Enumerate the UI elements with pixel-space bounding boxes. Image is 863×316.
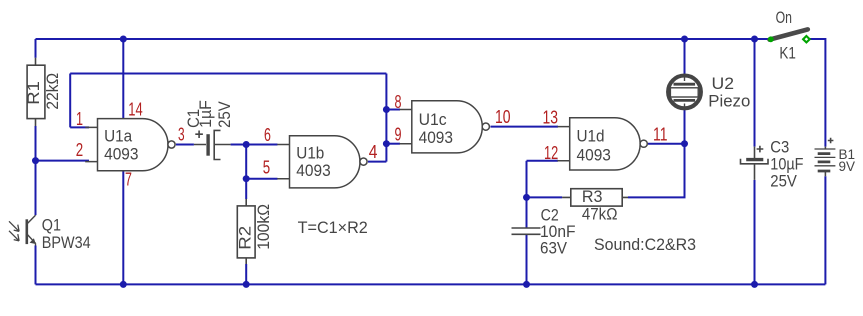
- wire pin7: [122, 171, 124, 285]
- svg-text:10: 10: [495, 106, 511, 127]
- svg-text:6: 6: [264, 124, 271, 145]
- resistor R3: [562, 189, 628, 206]
- piezo U2: [668, 75, 701, 108]
- op-amp U1d nand gate: [557, 118, 647, 170]
- svg-text:22kΩ: 22kΩ: [43, 73, 62, 110]
- svg-text:T=C1×R2: T=C1×R2: [298, 218, 368, 237]
- wire C2 to bottom rail: [526, 235, 528, 285]
- wire pin10 to pin13: [491, 126, 559, 128]
- wire pin1: [70, 74, 89, 128]
- resistor R2: [237, 199, 255, 264]
- wire pin6: [246, 144, 277, 146]
- wire C3 bottom: [754, 180, 756, 285]
- junction C3 top rail: [751, 36, 758, 43]
- svg-text:Q1: Q1: [42, 216, 61, 235]
- junction R2 bottom rail: [243, 281, 250, 288]
- svg-text:R2: R2: [236, 226, 255, 250]
- wire R1 top: [35, 39, 37, 58]
- svg-text:Piezo: Piezo: [708, 91, 750, 110]
- svg-text:9: 9: [395, 124, 402, 145]
- svg-text:11: 11: [653, 124, 668, 145]
- wire pin5: [246, 178, 277, 180]
- junction pin8 node: [383, 106, 390, 113]
- svg-text:1µF: 1µF: [196, 100, 215, 128]
- wire node down to R2: [245, 145, 247, 200]
- svg-text:12: 12: [544, 142, 558, 163]
- svg-text:U1b: U1b: [296, 144, 324, 163]
- svg-text:4093: 4093: [577, 146, 611, 165]
- svg-text:7: 7: [125, 169, 132, 190]
- junction C2 bottom rail: [523, 281, 530, 288]
- svg-text:100kΩ: 100kΩ: [254, 204, 273, 250]
- svg-text:9V: 9V: [839, 159, 856, 174]
- svg-text:R1: R1: [24, 81, 43, 105]
- junction pin9 node: [383, 140, 390, 147]
- wire pin3 U1a output to C1: [176, 144, 194, 146]
- svg-text:4: 4: [369, 141, 378, 162]
- svg-text:13: 13: [543, 106, 559, 127]
- svg-text:63V: 63V: [540, 239, 568, 258]
- wire bottom rail: [36, 283, 826, 285]
- svg-text:U1a: U1a: [104, 127, 132, 146]
- junction C2 R3 node: [523, 194, 530, 201]
- junction pin5 node: [243, 175, 250, 182]
- svg-text:U2: U2: [712, 74, 735, 93]
- wire pin4 U1b output: [368, 161, 386, 163]
- op-amp U1c nand gate: [400, 101, 490, 153]
- junction C3 bottom rail: [751, 281, 758, 288]
- svg-text:8: 8: [395, 91, 402, 112]
- svg-text:U1d: U1d: [577, 126, 605, 145]
- wire C1 to node: [231, 144, 247, 146]
- junction pin7 bottom rail: [120, 281, 127, 288]
- svg-text:1: 1: [76, 108, 83, 129]
- wire pin9: [386, 143, 400, 145]
- svg-text:25V: 25V: [215, 101, 234, 128]
- svg-text:14: 14: [128, 98, 142, 119]
- wire pin11 U1d output: [648, 143, 685, 145]
- svg-text:5: 5: [263, 157, 270, 178]
- wire Q1 emitter to bottom rail: [35, 246, 37, 285]
- wire R1 bottom to Q1: [35, 126, 37, 215]
- wire R3 right up to pin11 node: [628, 144, 685, 198]
- wire switch to right rail: [810, 39, 825, 147]
- op-amp U1a nand gate: [85, 119, 175, 171]
- svg-text:R3: R3: [582, 187, 603, 206]
- svg-text:Sound:C2&R3: Sound:C2&R3: [594, 235, 696, 254]
- wire piezo bottom: [684, 110, 686, 144]
- wire R2 to bottom rail: [245, 264, 247, 284]
- wire pin8: [386, 109, 400, 111]
- svg-text:4093: 4093: [104, 145, 138, 164]
- wire node to R3 left: [527, 196, 563, 198]
- switch K1: [768, 29, 810, 42]
- svg-text:4093: 4093: [296, 161, 330, 180]
- svg-text:3: 3: [178, 124, 185, 145]
- svg-text:U1c: U1c: [419, 110, 447, 129]
- transistor Q1: [9, 215, 36, 245]
- wire pin2: [36, 160, 90, 162]
- wire vertical pins 8 9: [385, 74, 387, 162]
- svg-text:47kΩ: 47kΩ: [582, 205, 618, 224]
- junction pin11 node: [681, 140, 688, 147]
- wire C3 top: [754, 39, 756, 147]
- wire piezo top: [684, 39, 686, 74]
- wire feedback top: [70, 73, 386, 75]
- op-amp U1b nand gate: [277, 136, 367, 188]
- wire top rail: [36, 38, 769, 40]
- wire pin12: [527, 160, 559, 162]
- junction C1 node: [243, 141, 250, 148]
- junction piezo top rail: [681, 36, 688, 43]
- wire pin14: [122, 39, 124, 119]
- junction pin14 top rail: [120, 36, 127, 43]
- svg-text:K1: K1: [779, 43, 796, 62]
- svg-text:25V: 25V: [770, 172, 797, 191]
- capacitor C3: [741, 146, 769, 180]
- resistor R1: [27, 58, 45, 126]
- svg-text:2: 2: [76, 139, 83, 160]
- wire pin12 down to C2: [526, 161, 528, 228]
- svg-text:4093: 4093: [419, 128, 453, 147]
- wire right rail below battery: [824, 176, 826, 284]
- junction R1 pin2: [32, 157, 39, 164]
- battery B1: [815, 138, 836, 177]
- capacitor C2: [512, 228, 541, 234]
- svg-text:BPW34: BPW34: [42, 233, 91, 252]
- capacitor C1: [194, 130, 231, 159]
- svg-text:On: On: [776, 8, 792, 27]
